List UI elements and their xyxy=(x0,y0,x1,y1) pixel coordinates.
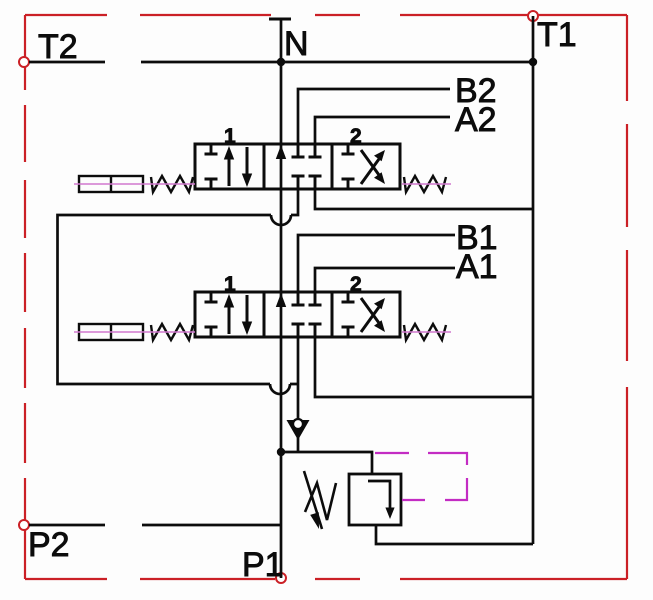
svg-text:T2: T2 xyxy=(38,28,78,66)
port marker T1 (red circle) xyxy=(528,11,538,21)
svg-text:1: 1 xyxy=(224,273,236,296)
svg-text:N: N xyxy=(284,25,309,63)
valve V2 blocked ports center cell xyxy=(292,292,322,337)
wire T1 vertical return line xyxy=(532,16,535,544)
valve V1 detent actuator box xyxy=(79,176,143,192)
valve V2 center cell arrow up (N passage) xyxy=(276,293,286,307)
valve V2 arrow down left cell xyxy=(246,295,249,325)
port marker T2 (red circle) xyxy=(19,57,29,67)
enclosure border (red dashed) right xyxy=(626,15,628,579)
svg-text:A1: A1 xyxy=(456,248,498,286)
valve V1 blocked port symbols left cell xyxy=(205,144,218,189)
valve V1 left spring xyxy=(151,176,193,192)
svg-text:2: 2 xyxy=(350,125,362,148)
svg-text:P2: P2 xyxy=(28,526,70,564)
valve V1 blocked ports right cell xyxy=(342,144,355,189)
wire N vertical main pressure line xyxy=(280,19,283,578)
wire P2 line xyxy=(29,524,281,527)
valve V1 arrow up left cell xyxy=(228,156,231,186)
valve V1 arrow down left cell xyxy=(246,147,249,177)
port marker P1 (red circle) xyxy=(276,573,286,583)
svg-text:T1: T1 xyxy=(537,16,577,54)
enclosure border (red dashed) bottom xyxy=(25,578,627,580)
relief valve RV1 internal arrow xyxy=(368,481,390,509)
valve V2 pilot centerline left (magenta) xyxy=(74,331,195,333)
valve V2 body xyxy=(195,292,400,337)
valve V1 blocked ports center cell xyxy=(292,144,322,189)
valve V2 blocked ports right cell xyxy=(342,292,355,337)
enclosure border (red dashed) left xyxy=(24,15,26,579)
wire valve2 to T1 xyxy=(315,337,533,397)
enclosure border (red dashed) top xyxy=(25,14,627,16)
valve V1 right spring xyxy=(404,176,446,192)
valve V2 right spring xyxy=(404,324,446,340)
check valve CV1 xyxy=(287,420,310,440)
relief valve RV1 adjustment arrow xyxy=(304,471,322,529)
node N cap xyxy=(269,18,291,21)
junction dot at N/T2 line xyxy=(277,58,285,66)
valve V2 blocked port symbols left cell xyxy=(205,292,218,337)
valve V1 crossed arrows right cell xyxy=(361,159,379,184)
valve V2 pilot centerline right (magenta) xyxy=(402,331,451,333)
wire bridge arc bottom xyxy=(270,384,290,394)
svg-text:A2: A2 xyxy=(455,101,497,139)
port marker P2 (red circle) xyxy=(19,520,29,530)
valve V1 center cell arrow up (N passage) xyxy=(276,145,286,159)
valve V2 detent actuator box xyxy=(79,324,143,340)
wire relief valve outlet to T1 xyxy=(376,525,533,544)
relief valve RV1 adjustable spring xyxy=(305,483,336,520)
valve V2 crossed arrows right cell xyxy=(361,307,379,332)
valve V1 pilot centerline left (magenta) xyxy=(74,183,195,185)
svg-text:1: 1 xyxy=(224,125,236,148)
valve V2 left spring xyxy=(151,324,193,340)
wire tank line T2 to N to T1 xyxy=(29,61,533,64)
wire B2 work port line xyxy=(298,89,450,144)
valve V1 body xyxy=(195,144,400,189)
wire tank loop top with bridge xyxy=(58,189,299,452)
valve V1 pilot centerline right (magenta) xyxy=(402,183,451,185)
junction dot at T1 xyxy=(529,58,537,66)
wire bridge arc top xyxy=(271,215,291,225)
wire A2 work port line xyxy=(315,117,450,144)
wire B1 work port line xyxy=(298,235,455,292)
wire A1 work port line xyxy=(315,268,455,292)
valve V2 arrow up left cell xyxy=(228,304,231,334)
wire P node to relief valve xyxy=(281,452,372,474)
junction dot P node xyxy=(277,448,285,456)
pilot line relief (magenta dashed) xyxy=(375,453,467,500)
relief valve RV1 body xyxy=(349,474,401,525)
svg-text:P1: P1 xyxy=(242,546,284,584)
svg-text:2: 2 xyxy=(350,273,362,296)
wire valve1 to T1 xyxy=(315,189,533,209)
